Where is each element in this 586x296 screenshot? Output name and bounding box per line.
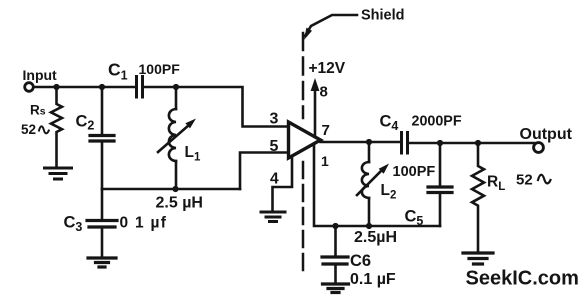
svg-text:0.1 µF: 0.1 µF [350,271,396,288]
shield dashed line [302,33,305,118]
ground Rs [45,168,72,179]
svg-text:C6: C6 [350,252,371,270]
resistor Rs [51,87,62,167]
wire pin1 down and bottom rail right [314,144,440,226]
wire C1 to pin3 corner [145,87,290,127]
svg-text:Output: Output [520,126,573,143]
ground C3 [88,258,116,267]
svg-text:0 1 µf: 0 1 µf [120,215,168,232]
wire input to C1 [34,86,135,89]
svg-text:Input: Input [23,67,58,83]
svg-text:8: 8 [320,84,328,101]
capacitor C2 [101,87,104,135]
node C5 top junction [437,140,443,146]
svg-text:1: 1 [321,153,329,169]
wire rail up to pin5 [240,153,289,190]
shield callout arrow [305,15,357,36]
svg-text:2.5 µH: 2.5 µH [156,195,203,212]
pin 4 wire [273,157,293,212]
svg-text:100PF: 100PF [393,164,436,180]
output terminal [534,143,544,153]
svg-text:52: 52 [21,122,36,137]
ground pin4 [261,212,285,222]
svg-text:Shield: Shield [361,8,405,24]
capacitor C1 [137,77,143,98]
capacitor C5 [439,143,442,187]
svg-text:+12V: +12V [309,60,346,77]
svg-text:L1: L1 [185,144,201,164]
op-amp U1 [289,122,321,158]
svg-text:C3: C3 [64,214,83,235]
node L1 top junction [173,84,179,90]
+12V pin 8 arrow [314,90,317,137]
capacitor C6 [334,226,337,257]
svg-text:7: 7 [322,122,330,139]
svg-text:5: 5 [270,138,279,155]
svg-text:2.5µH: 2.5µH [354,229,397,246]
wire bottom rail left [102,188,240,191]
svg-text:SeekIC.com: SeekIC.com [466,268,579,290]
node L2 top junction [366,139,372,145]
svg-text:52: 52 [516,172,533,189]
inductor L2 [368,142,371,162]
wire C4 to output [409,142,535,145]
node L2 bottom junction [366,223,372,229]
svg-text:C1: C1 [108,60,128,83]
node C2 junction [99,84,105,90]
ground RL [463,253,493,264]
wire op-amp output to C4 [321,141,401,144]
svg-text:C2: C2 [76,113,95,133]
node Rs junction [53,84,59,90]
svg-text:3: 3 [270,111,279,128]
svg-text:2000PF: 2000PF [412,114,462,130]
node L1 bottom junction [172,186,178,192]
node RL top junction [475,140,481,146]
capacitor C3 [101,189,104,220]
svg-text:C4: C4 [380,113,399,134]
svg-text:RL: RL [487,174,505,194]
node C6 junction [332,223,338,229]
resistor RL [472,143,484,252]
svg-text:L2: L2 [381,182,397,202]
input terminal [25,83,34,92]
svg-text:100PF: 100PF [139,61,181,77]
svg-text:Rs: Rs [30,103,46,118]
capacitor C4 [402,133,408,154]
inductor L1 [175,87,178,109]
ground C6 [323,284,349,293]
svg-text:4: 4 [270,171,279,188]
